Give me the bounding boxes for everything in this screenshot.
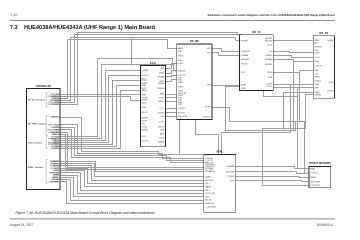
svg-text:AG99T: AG99T [142, 117, 149, 120]
wire RX_IF LO to RX_FE [274, 71, 314, 73]
svg-text:RX_IF: RX_IF [252, 30, 260, 34]
svg-text:EI7E9: EI7E9 [205, 107, 212, 109]
svg-text:CI5C: CI5C [205, 155, 210, 157]
svg-text:CE2TI9NE: CE2TI9NE [310, 181, 321, 183]
svg-text:7UGL: 7UGL [229, 181, 235, 183]
wire CNTL BTRL 5 to XTAL [61, 171, 204, 187]
wire FGU to RX_BE [166, 71, 177, 74]
svg-text:1IRT: 1IRT [178, 104, 183, 106]
svg-text:OCSI: OCSI [328, 82, 334, 84]
svg-text:P6G5: P6G5 [178, 56, 184, 58]
svg-text:Schematics, Component Location: Schematics, Component Location Diagrams,… [208, 13, 335, 17]
svg-text:2_EON: 2_EON [315, 65, 322, 67]
svg-text:5EB82N: 5EB82N [178, 71, 186, 73]
wire RX_FE if out to OUTPUT NETWORK [297, 88, 299, 169]
wire mid bus to right [212, 108, 309, 174]
wire RX_IF to RX_FE 3 [274, 60, 314, 62]
wire CNTL FGU bus b4 [61, 76, 141, 143]
svg-text:CX6HC: CX6HC [265, 55, 273, 57]
wire CNTL FGU bus b7 [61, 91, 141, 149]
svg-text:FESX: FESX [178, 86, 184, 88]
svg-text:UMHB: UMHB [315, 94, 322, 96]
wire CNTL SPI to RX_IF [61, 38, 240, 101]
svg-text:6816956H01-A: 6816956H01-A [317, 223, 334, 227]
wire FGU to RX_BE low [166, 116, 177, 118]
wire RX_BE bias tap [179, 120, 181, 155]
svg-text:N9NCH: N9NCH [157, 88, 165, 90]
svg-text:PFBC: PFBC [315, 77, 321, 79]
svg-text:EPDORM: EPDORM [178, 116, 187, 118]
wire RX_FE det to OUTPUT NETWORK [263, 95, 314, 186]
wire RX_IF mix to RX_FE 1 [274, 84, 314, 86]
wire CNTL BTRL 10 to XTAL [61, 182, 204, 204]
svg-text:_C4: _C4 [267, 51, 273, 53]
svg-text:XOE: XOE [142, 94, 147, 96]
svg-text:GCG: GCG [142, 80, 147, 82]
wire CNTL FGU bus b6 [61, 86, 141, 147]
wire XTAL to OUTPUT NETWORK [236, 167, 309, 169]
svg-text:I0D1G0S: I0D1G0S [226, 171, 235, 173]
svg-text:CS80L3B: CS80L3B [205, 203, 215, 205]
svg-text:V554A50V: V554A50V [205, 170, 216, 173]
svg-text:TOMPGN: TOMPGN [241, 51, 251, 53]
wire FGU to RX_BE [166, 64, 177, 69]
block U6 XTAL [204, 150, 236, 213]
svg-text:1MCIB4: 1MCIB4 [264, 40, 272, 42]
svg-text:IS51F: IS51F [142, 112, 148, 114]
svg-text:_A_U: _A_U [204, 182, 211, 185]
wire CNTL PWR p3 to XTAL [61, 128, 204, 161]
wire mid riser to RX_FE [284, 93, 314, 131]
svg-text:H2_RS: H2_RS [205, 200, 212, 202]
wire FGU to RX_BE [166, 76, 177, 77]
svg-text:0HP: 0HP [207, 48, 212, 50]
svg-text:DF_FCG: DF_FCG [51, 148, 60, 150]
wire jog branch short [293, 62, 295, 131]
svg-text:4_MC: 4_MC [159, 122, 165, 124]
wire RX_IF to RX_FE 1 [274, 52, 314, 53]
svg-text:C5T9RIO: C5T9RIO [310, 173, 319, 175]
svg-text:XVEASB: XVEASB [226, 165, 235, 168]
svg-text:__GCXEMI: __GCXEMI [204, 206, 216, 208]
svg-text:XAC6: XAC6 [142, 89, 148, 92]
wire CNTL PWR p4 to XTAL [61, 130, 204, 163]
svg-text:7A43_O: 7A43_O [52, 133, 60, 136]
wire CNTL BTRL 3 to XTAL [61, 166, 204, 181]
svg-text:7DCI: 7DCI [241, 72, 246, 74]
svg-text:RX_BE: RX_BE [190, 39, 199, 43]
svg-text:HSG: HSG [160, 94, 165, 96]
svg-text:SIAR4: SIAR4 [205, 186, 212, 189]
wire CNTL PWR p2 to XTAL [61, 125, 204, 159]
svg-text:5_TI7D1N: 5_TI7D1N [310, 185, 320, 187]
svg-text:CONTROLLER: CONTROLLER [36, 84, 51, 88]
svg-text:XH1L: XH1L [315, 84, 321, 86]
block U4 RX_IF [240, 30, 274, 90]
wire CNTL SPI to RX_BE [61, 40, 177, 99]
svg-text:OUTPUT NETWORK: OUTPUT NETWORK [309, 161, 331, 165]
wire RX_IF det tap [264, 91, 298, 97]
svg-text:28T7: 28T7 [205, 190, 211, 192]
svg-text:GSX7: GSX7 [159, 98, 165, 100]
svg-text:TL1G: TL1G [315, 57, 321, 59]
wire CNTL PWR p6 to XTAL [61, 135, 204, 170]
block U2 FGU [140, 61, 165, 147]
wire RX_BE VRX to RX_IF [212, 85, 240, 87]
svg-text:ORO29: ORO29 [157, 126, 165, 128]
wire CNTL FGU bus b1 to RX_BE [61, 59, 177, 137]
wire CNTL PWR p5 to XTAL [61, 133, 204, 168]
svg-text:S08NE: S08NE [158, 142, 165, 144]
block U5 RX_FE [313, 31, 334, 98]
wire CNTL to FGU pin FG_3 [61, 97, 141, 101]
svg-text:FGU_Interface: FGU_Interface [28, 141, 43, 144]
svg-text:T9H1T7: T9H1T7 [178, 108, 186, 110]
svg-text:AIGL: AIGL [178, 59, 184, 62]
svg-text:F05HF1: F05HF1 [241, 40, 249, 42]
svg-text:_02BR: _02BR [141, 70, 149, 72]
svg-text:RT0FI: RT0FI [266, 86, 272, 88]
svg-text:AA42: AA42 [178, 47, 184, 50]
wire RX_IF preamp out [226, 87, 296, 131]
wire CNTL BTRL 2 to XTAL [61, 164, 204, 177]
svg-text:RX_FE: RX_FE [319, 31, 328, 35]
svg-text:9NR48: 9NR48 [158, 83, 165, 85]
svg-text:M_HX4: M_HX4 [142, 141, 150, 143]
svg-text:24HG: 24HG [159, 73, 165, 75]
svg-text:5EA: 5EA [315, 69, 320, 72]
wire RX_BE to RX_IF s2 [212, 53, 240, 56]
wire CNTL BTRL 4 to XTAL [61, 169, 204, 184]
svg-text:C0TC22SI: C0TC22SI [205, 193, 215, 195]
svg-text:7-10: 7-10 [10, 13, 18, 17]
svg-text:B73FI: B73FI [241, 85, 247, 87]
svg-text:7.3: 7.3 [10, 25, 18, 31]
svg-text:0SU5: 0SU5 [315, 52, 321, 54]
header rule [10, 20, 335, 22]
wire CNTL BTRL 1 to XTAL [61, 162, 204, 172]
wire FGU to RX_BE [166, 94, 177, 96]
svg-text:4UOOO: 4UOOO [142, 75, 150, 77]
wire XTAL to OUTPUT NETWORK [236, 177, 309, 178]
svg-text:AEV: AEV [160, 133, 165, 136]
svg-text:August 24, 2007: August 24, 2007 [10, 223, 33, 227]
svg-text:D2M: D2M [142, 107, 147, 109]
wire CNTL BTRL 7 to XTAL [61, 176, 204, 194]
svg-text:6DRAM: 6DRAM [265, 58, 273, 61]
block N1 OUTPUT NETWORK [309, 161, 331, 188]
wire CNTL FGU bus b3 [61, 71, 141, 141]
wire CNTL PWR p1 to XTAL [61, 118, 204, 155]
wire CNTL BTRL 9 to XTAL [61, 180, 204, 201]
wire RX_IF to RX_FE 2 [274, 56, 314, 58]
svg-text:HUE4038A/HUE4343A (UHF Range 1: HUE4038A/HUE4343A (UHF Range 1) Main Boa… [24, 25, 155, 31]
svg-text:1A72: 1A72 [54, 103, 60, 106]
wire XTAL to OUTPUT NETWORK [236, 181, 309, 182]
wire RX_BE down to XTAL top [196, 120, 219, 155]
wire RX_IF mix to RX_FE 2 [274, 87, 314, 89]
svg-text:N8FN3: N8FN3 [142, 130, 149, 132]
svg-text:73E: 73E [207, 85, 211, 87]
svg-text:C2NAM: C2NAM [241, 54, 249, 57]
svg-text:FGU: FGU [150, 61, 156, 65]
node RF_PWR_Interface [28, 116, 48, 136]
svg-text:E1U8: E1U8 [142, 121, 148, 123]
svg-text:DAV: DAV [142, 84, 147, 87]
svg-text:XA34: XA34 [178, 81, 184, 84]
wire FGU to RX_BE low [166, 112, 177, 114]
wire CNTL SPI bus 2 to RX_IF top [61, 35, 242, 103]
wire CNTL SPI bus to RX_IF top [61, 33, 238, 105]
wire FGU to RX_BE [166, 80, 177, 82]
svg-text:898GC: 898GC [310, 177, 317, 179]
wire FGU to RX_BE low [166, 108, 177, 110]
svg-text:6C16I: 6C16I [142, 127, 148, 129]
svg-text:GTSH8: GTSH8 [315, 46, 323, 48]
svg-text:INCOO: INCOO [52, 117, 59, 119]
svg-text:RF_PWR_Interface: RF_PWR_Interface [28, 123, 47, 126]
svg-text:9DFI: 9DFI [267, 72, 272, 74]
svg-text:P7CI: P7CI [267, 45, 272, 47]
block U1 CONTROLLER [27, 84, 60, 190]
wire RX_IF to RX_FE ctl [274, 40, 314, 42]
wire CNTL to FGU pin FG_2 [61, 94, 141, 96]
svg-text:8SAL: 8SAL [310, 167, 316, 170]
block U3 RX_BE [177, 39, 212, 119]
wire LO branch down [299, 71, 301, 122]
svg-text:CABE_: CABE_ [205, 176, 213, 179]
svg-text:O_RP9L: O_RP9L [51, 181, 60, 183]
wire CNTL FGU bus b2 to RX_BE [61, 65, 177, 139]
wire ref clock tap to FGU [131, 38, 133, 66]
svg-text:Figure 7-48. HUE4038A/HUE4343A: Figure 7-48. HUE4038A/HUE4343A Main Boar… [16, 211, 155, 215]
svg-text:D8O41: D8O41 [158, 112, 165, 114]
svg-text:9DO5RU: 9DO5RU [205, 180, 214, 182]
svg-text:XTAL: XTAL [216, 150, 223, 154]
svg-text:1TLRRR: 1TLRRR [226, 176, 235, 178]
svg-text:R1AOMT: R1AOMT [241, 58, 250, 61]
wire CNTL BTRL 8 to XTAL [61, 178, 204, 197]
wire FGU to RX_BE [166, 97, 177, 99]
controller pin labels [50, 94, 60, 183]
wire RX_BE to RX_IF s1 [212, 49, 240, 52]
svg-text:5P68: 5P68 [241, 88, 247, 90]
svg-text:H29DO7: H29DO7 [203, 117, 212, 119]
svg-text:4_C5: 4_C5 [159, 108, 165, 110]
node BTRL_Interface [28, 160, 48, 184]
svg-text:SN2AA: SN2AA [157, 76, 164, 79]
node RF_GC_Interface [28, 93, 48, 108]
svg-text:5AS8_: 5AS8_ [158, 100, 165, 103]
svg-text:RAIN: RAIN [315, 91, 320, 94]
wire XTAL to OUTPUT NETWORK [236, 172, 309, 174]
wire FGU to RX_BE [166, 101, 177, 103]
wire jog branch to XTAL top [222, 85, 291, 155]
svg-text:4_EX: 4_EX [159, 138, 165, 140]
svg-text:_GHT3: _GHT3 [325, 91, 334, 93]
svg-text:SSLC: SSLC [142, 102, 148, 104]
svg-text:T9CD8: T9CD8 [241, 63, 248, 65]
svg-text:RF_GC_Interface: RF_GC_Interface [28, 99, 46, 102]
svg-text:5O6T0: 5O6T0 [315, 81, 322, 83]
svg-text:BTRL_Interface: BTRL_Interface [28, 166, 44, 169]
wire CNTL BTRL 6 to XTAL [61, 173, 204, 191]
svg-text:3VMI: 3VMI [178, 63, 183, 65]
svg-text:GNFA: GNFA [328, 39, 334, 42]
footer rule [10, 218, 335, 220]
node FGU_Interface [28, 136, 48, 149]
svg-text:8U79G: 8U79G [178, 112, 185, 114]
svg-text:88IXEB: 88IXEB [265, 64, 273, 66]
wire CNTL FGU bus b5 [61, 81, 141, 145]
